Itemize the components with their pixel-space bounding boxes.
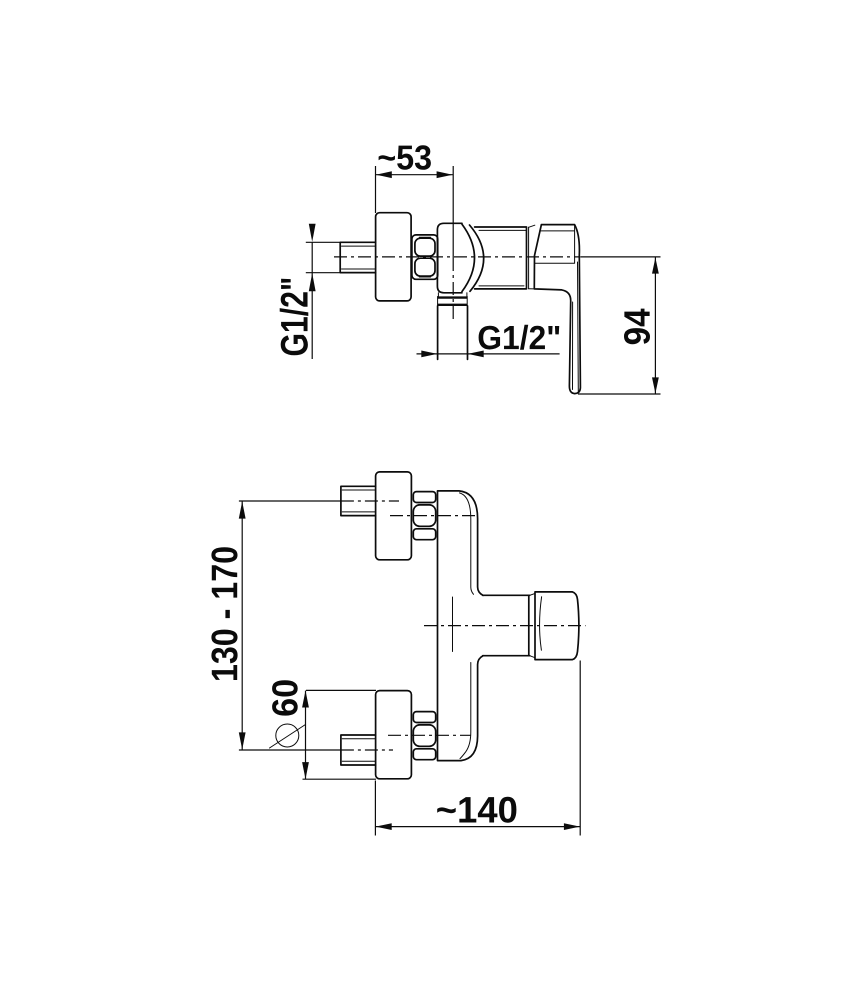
dimension 130 - 170 (left) bbox=[211, 501, 245, 749]
bottom mount centerline bbox=[239, 749, 341, 751]
threaded ring band (dark) bbox=[437, 298, 467, 305]
bottom wall flange escutcheon (front view) bbox=[376, 691, 412, 779]
vertical centerline of outlet / right extension of ~53 bbox=[452, 166, 454, 258]
dimension 94 (right) bbox=[578, 257, 661, 394]
94 top reference line (solid from handle to dim line) bbox=[580, 256, 660, 258]
shower outlet connection (front view) bbox=[483, 592, 579, 660]
bottom hex nut (front view, three facets) bbox=[413, 712, 435, 760]
top wall flange escutcheon (front view) bbox=[376, 472, 412, 560]
dimension ~140 (bottom) bbox=[375, 661, 580, 836]
dimension ~53 bbox=[376, 145, 453, 213]
lever handle (side view) bbox=[529, 225, 581, 394]
top mount centerline bbox=[239, 500, 341, 502]
wall flange escutcheon (side view) bbox=[376, 213, 412, 301]
diameter symbol bbox=[276, 724, 299, 747]
mixer bottom inlet centerline bbox=[388, 734, 471, 736]
dimension diameter 60 bbox=[270, 680, 377, 779]
valve body cylinder (side view) bbox=[475, 227, 529, 289]
body vertical center tick at outlet bbox=[452, 597, 454, 652]
top wall pipe (hidden S-union, front view) bbox=[341, 486, 376, 515]
wall pipe G1/2 (side view, threaded) bbox=[340, 242, 375, 272]
valve cap (side view, domed cover) bbox=[437, 223, 483, 292]
dimension G1/2" bottom (outlet thread) bbox=[417, 325, 560, 357]
outlet centerline bbox=[424, 625, 586, 627]
mixer top inlet centerline bbox=[390, 515, 477, 517]
centerline horizontal (side view axis) bbox=[334, 256, 580, 258]
outlet pipe below (shower hose connection) bbox=[438, 306, 468, 360]
mixer body (front view) bbox=[438, 491, 484, 761]
top hex nut (front view, three facets) bbox=[413, 492, 435, 540]
bottom wall pipe (hidden S-union, front view) bbox=[341, 735, 376, 765]
hex nut (side view, two facets) bbox=[412, 235, 438, 279]
dimension G1/2" left (wall pipe thread) bbox=[280, 224, 340, 359]
outlet neck below cap bbox=[438, 293, 467, 297]
